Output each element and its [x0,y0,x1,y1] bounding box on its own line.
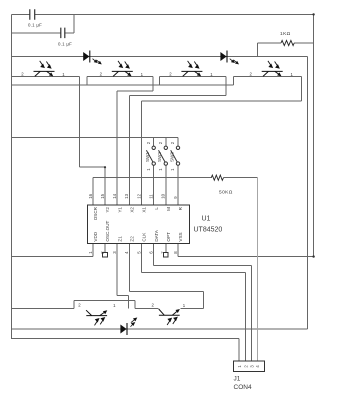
svg-text:16: 16 [88,193,93,198]
svg-text:14: 14 [112,193,117,198]
svg-text:L: L [154,207,159,210]
svg-text:OSCR: OSCR [93,206,98,220]
svg-text:VSS: VSS [178,232,183,241]
svg-text:Y2: Y2 [105,207,110,213]
svg-text:0.1 µF: 0.1 µF [58,42,72,47]
svg-text:UT84520: UT84520 [194,227,223,234]
svg-text:15: 15 [100,193,105,198]
svg-text:SW2: SW2 [157,152,162,162]
svg-text:SW1: SW1 [145,152,150,162]
svg-text:X1: X1 [142,207,147,213]
svg-text:10: 10 [161,193,166,198]
svg-text:12: 12 [136,193,141,198]
svg-text:1KΩ: 1KΩ [280,31,291,37]
svg-text:Z1: Z1 [117,236,122,242]
svg-text:DATA: DATA [154,229,159,242]
svg-text:SW3: SW3 [169,152,174,162]
svg-text:50KΩ: 50KΩ [219,190,233,196]
svg-text:CON4: CON4 [234,384,252,391]
svg-text:U1: U1 [202,216,211,223]
svg-text:OPT: OPT [166,232,171,242]
svg-text:11: 11 [149,194,154,199]
svg-text:0.1 µF: 0.1 µF [28,23,42,28]
svg-text:OSC.OUT: OSC.OUT [105,220,110,241]
svg-text:CLK: CLK [142,232,147,242]
svg-text:M: M [166,207,171,211]
svg-text:Y1: Y1 [117,207,122,213]
svg-text:X2: X2 [130,207,135,213]
svg-text:Z2: Z2 [130,236,135,242]
svg-text:13: 13 [124,193,129,198]
svg-text:J1: J1 [234,376,241,383]
svg-text:VDD: VDD [93,231,98,241]
